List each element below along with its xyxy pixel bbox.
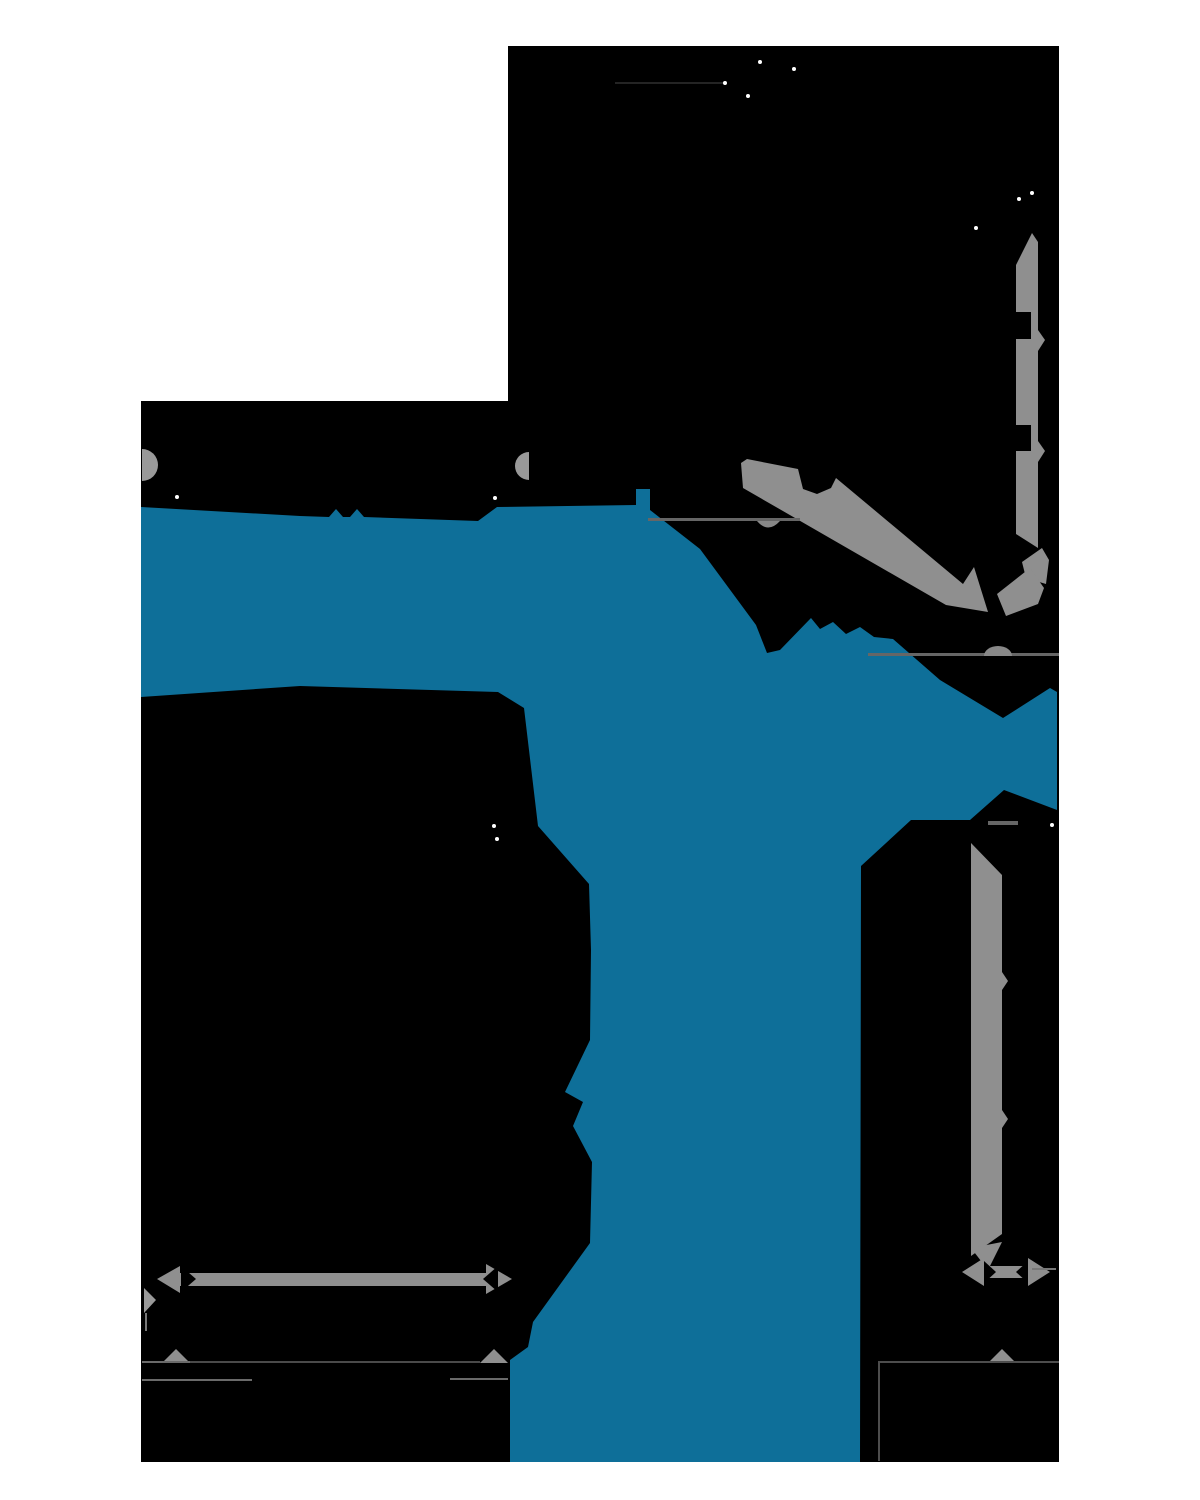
H1 black notches bbox=[181, 1266, 196, 1292]
V1 notch 2 bbox=[1016, 425, 1031, 451]
V1 edge bump 2 bbox=[1038, 441, 1045, 462]
floor triangle T3 bbox=[988, 1349, 1016, 1363]
V1/D1 arrowhead cluster bbox=[1022, 548, 1049, 584]
vertical dimension arrow V1 (top right) bbox=[1016, 233, 1038, 548]
V2 bottom arrowhead bbox=[971, 1242, 1002, 1270]
blue band and column bbox=[141, 489, 1057, 1462]
faint top line bbox=[615, 82, 725, 84]
floor triangle T2 bbox=[480, 1349, 508, 1363]
black silhouette: left panel bbox=[141, 401, 592, 1462]
V1 edge bump 1 bbox=[1038, 330, 1045, 351]
black silhouette: right column bbox=[860, 745, 1059, 1462]
H2 black notches bbox=[984, 1261, 996, 1283]
width dimension bar H1 (bottom left) bbox=[157, 1266, 180, 1293]
faint floor lines bbox=[142, 1361, 242, 1363]
right half-disc bbox=[515, 452, 529, 480]
white specks bbox=[175, 495, 179, 499]
H2 tail line bbox=[1032, 1268, 1056, 1270]
floor triangle T1 bbox=[162, 1349, 190, 1363]
V2 edge bump 1 bbox=[1002, 972, 1008, 990]
V1 notch 1 bbox=[1016, 312, 1031, 339]
depth dimension bar H2 (bottom right) bbox=[962, 1258, 984, 1286]
left half-disc bbox=[142, 449, 158, 481]
vertical dimension arrow V2 (right column) bbox=[971, 843, 1002, 1256]
extension line L1 (y=520) bbox=[648, 518, 800, 521]
L1 bump bbox=[757, 521, 780, 528]
black silhouette: top-right block bbox=[508, 46, 1059, 800]
L2 bump bbox=[984, 646, 1012, 656]
extension line L2 (y=655) bbox=[868, 653, 1059, 656]
diagonal dimension arrow D1 bbox=[741, 459, 988, 612]
T0 small triangle bbox=[144, 1288, 156, 1313]
extension dash L3 (y=823) bbox=[988, 821, 1018, 825]
V2 edge bump 2 bbox=[1002, 1110, 1008, 1128]
